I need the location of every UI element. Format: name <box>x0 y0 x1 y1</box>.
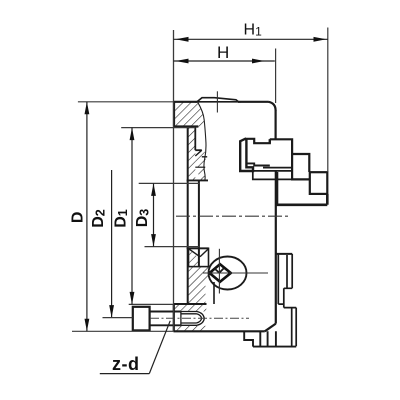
bottom rim left edge <box>173 304 175 331</box>
H1 left arrowhead <box>176 37 189 42</box>
bolt z-d head <box>133 307 150 331</box>
body bottom right chamfer <box>265 324 276 332</box>
bolt centerline <box>150 317 249 319</box>
lower guide outer column <box>284 254 292 288</box>
D bottom extension line <box>72 330 174 332</box>
svg-text:z-d: z-d <box>112 354 140 374</box>
D1 dimension line <box>131 128 133 305</box>
D3 dimension line <box>153 183 155 246</box>
D1 bottom extension line <box>129 303 174 305</box>
svg-text:D2: D2 <box>90 209 108 228</box>
H right arrowhead <box>252 59 265 64</box>
bore closing line upper <box>187 179 208 181</box>
bolt thread section <box>181 312 197 326</box>
slot step line <box>195 150 202 156</box>
D top arrowhead <box>85 102 90 115</box>
H1 right arrowhead <box>314 37 327 42</box>
break-out section curve upper <box>198 102 207 181</box>
pinion socket chamfer V <box>215 268 224 273</box>
D1 bottom arrowhead <box>130 292 135 305</box>
z-d leader line <box>149 321 170 374</box>
D dimension line <box>86 102 88 331</box>
D3 bottom extension line <box>145 246 201 248</box>
svg-text:D: D <box>70 212 87 224</box>
jaw base block <box>277 172 328 205</box>
body top edge <box>238 101 269 103</box>
pinion vertical centerline <box>218 249 220 294</box>
pinion socket box <box>189 248 209 266</box>
slot step line 2 <box>202 156 207 158</box>
jaw middle block <box>292 154 309 179</box>
D1 top arrowhead <box>130 128 135 141</box>
jaw body block <box>270 139 292 154</box>
body right edge lower <box>275 172 277 324</box>
svg-text:D1: D1 <box>113 209 131 228</box>
body top-right rounded corner <box>269 102 276 111</box>
top rim flange outline <box>174 102 198 127</box>
plate inner face line <box>187 127 189 306</box>
H left arrowhead <box>176 59 189 64</box>
svg-text:H1: H1 <box>244 22 263 39</box>
D2 dimension line <box>111 170 113 318</box>
jaw right block <box>310 172 328 194</box>
pinion horizontal centerline <box>203 272 268 274</box>
slideway slot bottom line <box>195 149 202 151</box>
lower white column right edge <box>213 282 215 304</box>
bottom protrusion <box>244 331 296 346</box>
D1 top extension line <box>121 127 195 129</box>
H dimension line <box>174 60 275 62</box>
pinion socket V left <box>189 249 200 257</box>
lower guide foot <box>284 308 296 347</box>
svg-text:D3: D3 <box>134 209 152 228</box>
D2 extension line (bolt centerline) <box>103 317 133 319</box>
jaw under-step <box>253 171 292 179</box>
pinion socket left hatch <box>189 251 199 267</box>
slot hatch column <box>188 128 196 181</box>
slot hatch column right edge <box>194 128 196 151</box>
H1 dimension line <box>174 38 328 40</box>
D3 top arrowhead <box>151 183 156 196</box>
D top extension line <box>78 101 174 103</box>
slot lower right hatch column <box>198 167 205 180</box>
pinion square socket diamond <box>210 264 231 282</box>
jaw base interface lines <box>240 168 292 171</box>
jaw clamp outer bar <box>240 139 253 171</box>
top rim flange section (hatched) <box>174 102 204 127</box>
body right edge <box>275 110 277 139</box>
lower plate hatch <box>188 267 209 304</box>
top boss bump outline <box>197 98 239 102</box>
slot step line 3 <box>195 166 205 168</box>
D2 bottom arrowhead <box>109 305 114 318</box>
lower guide top plate <box>276 253 292 255</box>
D3 bottom arrowhead <box>151 234 156 247</box>
top bolt hole centerline <box>216 91 218 112</box>
bottom rim hatch below bolt hole <box>176 326 208 332</box>
bottom rim hatch above bolt hole <box>174 304 207 312</box>
bolt shaft <box>150 312 181 326</box>
D bottom arrowhead <box>85 319 90 332</box>
bore edge line <box>198 180 200 266</box>
H1 right extension line <box>327 28 329 173</box>
main axis centerline <box>176 215 290 217</box>
pinion ellipse <box>209 257 247 290</box>
left extension line <box>173 30 175 331</box>
bore closing line lower <box>187 247 209 249</box>
z-d leader underline <box>100 373 150 375</box>
svg-text:H: H <box>217 43 229 62</box>
bottom rim top edge <box>174 303 207 305</box>
lower guide middle neck <box>278 288 284 307</box>
slot lower hatch band <box>195 151 205 167</box>
lower guide inner edge <box>277 254 279 304</box>
bolt tip <box>197 312 205 326</box>
pinion socket V right <box>200 249 208 257</box>
D3 top extension line <box>139 182 200 184</box>
jaw nose top step <box>245 139 270 143</box>
H right extension line <box>275 49 277 104</box>
body bottom edge <box>174 330 265 332</box>
jaw nose bottom step <box>246 163 269 165</box>
